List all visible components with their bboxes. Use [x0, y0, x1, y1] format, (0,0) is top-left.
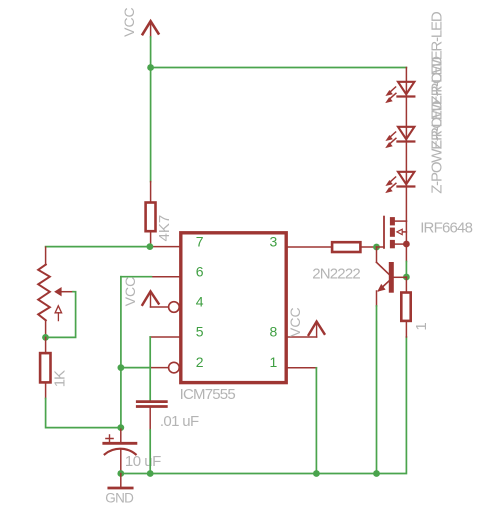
- capacitor C2 10uF: [104, 428, 161, 474]
- wire top horizontal rail to LED chain: [151, 67, 407, 69]
- ground GND symbol: [105, 474, 134, 506]
- node pot bottom junction: [42, 334, 49, 341]
- wire source down: [405, 244, 407, 262]
- wire bottom ground rail: [121, 337, 407, 474]
- svg-text:1: 1: [413, 322, 430, 330]
- resistor R2 4K7: [146, 203, 173, 242]
- svg-text:VCC: VCC: [122, 277, 138, 307]
- pin 4 inversion circle and VCC: [122, 277, 179, 313]
- wire pot wiper loop: [46, 292, 76, 338]
- pin 1 wire to rail: [288, 367, 316, 369]
- wire VCC stem to top junction: [150, 37, 152, 68]
- svg-text:VCC: VCC: [121, 7, 137, 37]
- capacitor C3 .01uF: [137, 402, 199, 431]
- node junction under R2: [147, 243, 154, 250]
- transistor Q1 2N2222: [312, 247, 406, 293]
- svg-text:3: 3: [270, 234, 278, 250]
- wire R1 bottom: [405, 322, 407, 337]
- wire emitter to ground rail: [376, 291, 378, 306]
- svg-text:VCC: VCC: [287, 307, 303, 337]
- wire VCC down to R2: [150, 68, 152, 182]
- resistor R1 sense: [401, 293, 430, 331]
- node emitter to rail: [373, 470, 380, 477]
- svg-text:ICM7555: ICM7555: [180, 386, 236, 403]
- svg-text:2: 2: [196, 354, 204, 370]
- pin 2 inversion circle and wire: [121, 362, 179, 373]
- LED D3: [385, 172, 414, 193]
- node C3 to rail: [147, 470, 154, 477]
- svg-text:7: 7: [196, 234, 204, 250]
- node source junction: [403, 274, 410, 281]
- svg-text:10 uF: 10 uF: [125, 453, 161, 470]
- wire source node to R1: [405, 277, 407, 291]
- wire R2 bottom: [150, 232, 152, 246]
- pin 3 wire: [288, 246, 331, 248]
- pin 6 wire: [151, 276, 179, 278]
- svg-text:Z-POWER-LED: Z-POWER-LED: [429, 100, 446, 193]
- node junction at C2 top: [117, 424, 124, 431]
- svg-text:1K: 1K: [51, 370, 68, 387]
- node pin2 junction: [118, 364, 125, 371]
- svg-text:.01 uF: .01 uF: [160, 413, 199, 430]
- wire R4 bottom to rail: [45, 384, 47, 399]
- resistor R4 1K: [40, 337, 68, 387]
- svg-text:5: 5: [196, 324, 204, 340]
- wire R3 to gate node: [361, 246, 377, 248]
- wire net at pin7 row: [46, 246, 150, 248]
- svg-text:6: 6: [196, 264, 204, 280]
- node junction GND rail left: [117, 470, 124, 477]
- wire pin6/pin2 vertical: [120, 277, 122, 428]
- svg-text:8: 8: [270, 324, 278, 340]
- wire C3 bottom to rail: [149, 408, 151, 430]
- transistor Q2 MOSFET IRF6648: [377, 217, 473, 249]
- power symbol VCC top: [121, 7, 158, 37]
- potentiometer R5: [38, 247, 73, 336]
- pin 5 wire to C3: [150, 336, 179, 338]
- node junction top VCC: [147, 64, 154, 71]
- IC U1 ICM7555 box: [180, 233, 287, 403]
- LED D1: [385, 82, 414, 103]
- svg-text:1: 1: [270, 354, 278, 370]
- node gate junction: [373, 244, 380, 251]
- resistor R3 gate: [332, 242, 360, 252]
- svg-text:2N2222: 2N2222: [312, 265, 360, 282]
- wire LED chain vertical: [405, 68, 407, 222]
- node pin1 to rail: [313, 470, 320, 477]
- svg-text:GND: GND: [105, 491, 134, 506]
- LED D2: [385, 127, 414, 148]
- svg-text:IRF6648: IRF6648: [420, 219, 472, 236]
- svg-text:4K7: 4K7: [156, 215, 173, 242]
- svg-text:4: 4: [196, 294, 204, 310]
- pin 8 wire and VCC: [287, 307, 324, 337]
